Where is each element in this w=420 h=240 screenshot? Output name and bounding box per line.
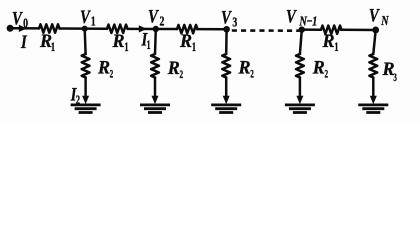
- svg-text:1: 1: [51, 42, 55, 55]
- svg-text:1: 1: [91, 13, 96, 29]
- svg-text:V: V: [286, 6, 297, 27]
- svg-text:V: V: [148, 6, 159, 27]
- svg-text:2: 2: [76, 93, 81, 107]
- svg-text:V: V: [221, 7, 232, 28]
- svg-text:1: 1: [124, 42, 128, 55]
- svg-text:0: 0: [23, 15, 28, 31]
- svg-text:2: 2: [325, 68, 329, 81]
- svg-text:R: R: [238, 57, 251, 79]
- svg-text:2: 2: [110, 68, 114, 81]
- svg-text:2: 2: [250, 68, 254, 81]
- svg-text:N−1: N−1: [299, 13, 317, 29]
- svg-text:3: 3: [232, 14, 237, 30]
- svg-text:1: 1: [334, 42, 338, 55]
- svg-text:2: 2: [180, 68, 184, 81]
- svg-text:N: N: [380, 12, 389, 28]
- svg-text:1: 1: [147, 39, 151, 52]
- svg-text:R: R: [39, 31, 52, 53]
- svg-text:V: V: [369, 5, 380, 26]
- svg-text:R: R: [97, 57, 110, 79]
- svg-text:R: R: [179, 31, 192, 53]
- svg-text:R: R: [322, 31, 335, 53]
- svg-text:R: R: [167, 58, 180, 80]
- svg-text:3: 3: [393, 71, 397, 84]
- svg-text:R: R: [382, 59, 395, 81]
- svg-text:R: R: [112, 31, 125, 53]
- svg-text:R: R: [312, 57, 325, 79]
- svg-text:2: 2: [160, 13, 165, 29]
- svg-text:V: V: [80, 6, 91, 27]
- svg-text:V: V: [12, 8, 23, 29]
- svg-text:1: 1: [192, 42, 196, 55]
